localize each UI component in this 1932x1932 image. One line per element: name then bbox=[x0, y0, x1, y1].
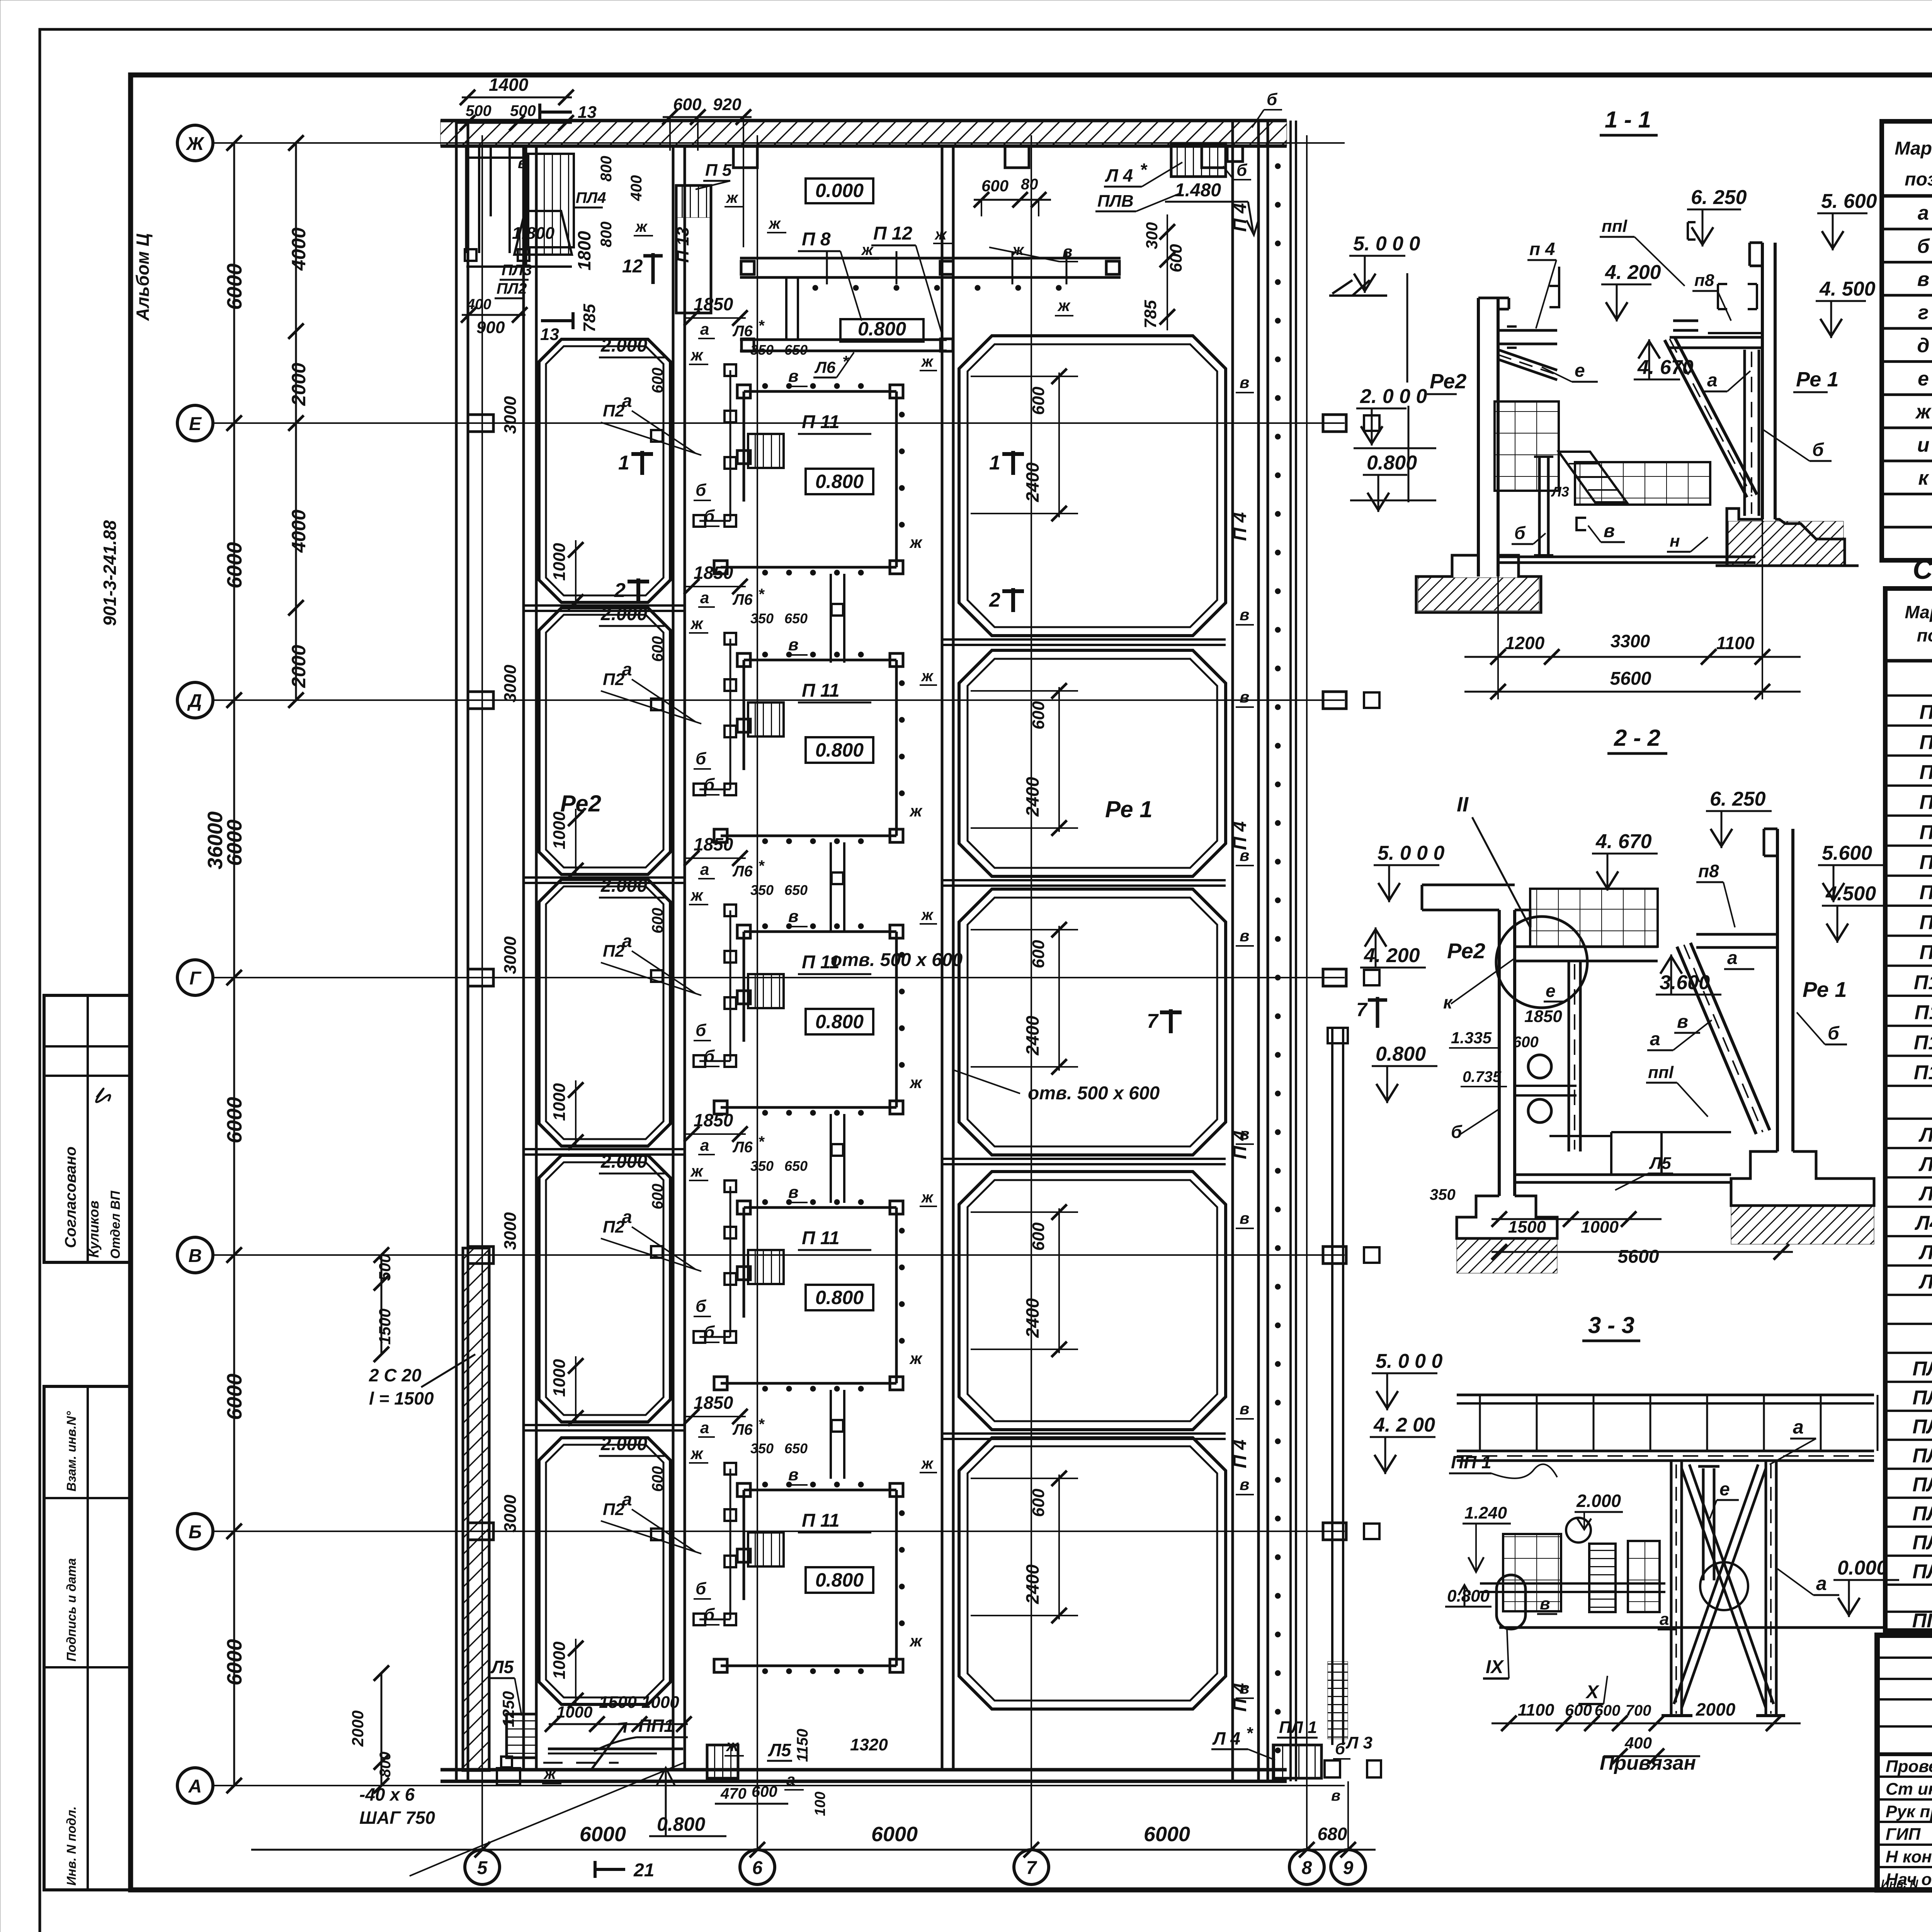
svg-text:б: б bbox=[696, 1021, 707, 1040]
svg-text:Спецификация лестниц, площад: Спецификация лестниц, площадок, огражден… bbox=[1913, 554, 1932, 585]
svg-text:е: е bbox=[1546, 981, 1556, 1001]
svg-text:б: б bbox=[696, 1297, 707, 1316]
svg-text:в: в bbox=[1240, 1209, 1249, 1227]
svg-text:П12: П12 bbox=[1914, 1031, 1932, 1054]
svg-text:1000: 1000 bbox=[550, 811, 569, 849]
svg-text:13: 13 bbox=[540, 325, 559, 344]
section 1-1 right diagonal bbox=[1665, 337, 1757, 497]
svg-text:Инв. N подл.: Инв. N подл. bbox=[64, 1806, 78, 1886]
plan left dim chain 6000s bbox=[226, 135, 242, 1793]
svg-text:350: 350 bbox=[750, 1158, 774, 1174]
svg-text:в: в bbox=[1240, 1679, 1249, 1697]
section 1-1 right post bbox=[1745, 350, 1759, 516]
svg-text:Л5: Л5 bbox=[1918, 1241, 1932, 1264]
svg-text:*: * bbox=[1246, 1724, 1253, 1743]
svg-text:ж: ж bbox=[726, 189, 739, 206]
svg-text:П9: П9 bbox=[1919, 941, 1932, 964]
left tank 2 bbox=[539, 608, 670, 874]
svg-text:-40 х 6: -40 х 6 bbox=[359, 1784, 415, 1804]
svg-text:б: б bbox=[696, 749, 707, 768]
right tank column walls bbox=[942, 146, 953, 1770]
svg-text:*: * bbox=[758, 317, 765, 334]
svg-text:785: 785 bbox=[1141, 300, 1160, 328]
svg-text:б: б bbox=[704, 775, 715, 794]
svg-text:*: * bbox=[758, 1133, 765, 1150]
svg-text:7: 7 bbox=[1147, 1010, 1159, 1032]
svg-text:ПЛ1: ПЛ1 bbox=[1912, 1387, 1932, 1409]
svg-text:ж: ж bbox=[909, 1632, 923, 1650]
section 3-3 post with e bbox=[1698, 1466, 1719, 1580]
svg-text:6000: 6000 bbox=[223, 1639, 246, 1685]
svg-text:ж: ж bbox=[921, 1455, 934, 1472]
svg-text:680: 680 bbox=[1318, 1824, 1347, 1844]
svg-text:500: 500 bbox=[466, 102, 492, 119]
svg-text:ж: ж bbox=[690, 1444, 704, 1463]
svg-text:П10: П10 bbox=[1914, 971, 1932, 994]
svg-text:3000: 3000 bbox=[501, 665, 520, 702]
svg-text:0.000: 0.000 bbox=[815, 180, 864, 201]
svg-text:б: б bbox=[696, 481, 707, 500]
left tank column walls bbox=[524, 146, 685, 1770]
svg-text:ПЛ5: ПЛ5 bbox=[1912, 1503, 1932, 1525]
svg-text:б: б bbox=[1236, 161, 1248, 180]
top-left stair block bbox=[465, 145, 572, 267]
svg-text:б: б bbox=[1828, 1023, 1840, 1044]
svg-text:2000: 2000 bbox=[1696, 1699, 1736, 1719]
left wall pilasters bbox=[468, 415, 493, 1540]
svg-text:900: 900 bbox=[476, 318, 505, 337]
P8 long platform bbox=[740, 251, 1121, 351]
svg-text:500: 500 bbox=[376, 1254, 394, 1281]
svg-text:800: 800 bbox=[598, 221, 615, 247]
svg-text:е: е bbox=[1918, 367, 1929, 390]
signature squiggle bbox=[96, 1088, 110, 1102]
section 3-3 top railing bbox=[1457, 1395, 1874, 1461]
section 2-2 posts bbox=[1569, 961, 1580, 1151]
building top wall (hatched band) bbox=[440, 121, 1287, 146]
svg-text:650: 650 bbox=[784, 1158, 808, 1174]
section 1-1 right wall Re1 bbox=[1750, 243, 1775, 519]
svg-text:ПП 1: ПП 1 bbox=[1451, 1452, 1492, 1472]
svg-text:II: II bbox=[1457, 793, 1469, 816]
svg-text:Л6: Л6 bbox=[732, 1139, 753, 1156]
svg-text:2 - 2: 2 - 2 bbox=[1614, 725, 1660, 751]
top-left ladder hatch bbox=[528, 154, 574, 247]
svg-text:Л4*: Л4* bbox=[1914, 1212, 1932, 1234]
svg-text:ГИП: ГИП bbox=[1886, 1825, 1921, 1844]
svg-text:в: в bbox=[788, 635, 799, 654]
svg-text:9: 9 bbox=[1343, 1858, 1354, 1878]
svg-text:21: 21 bbox=[633, 1860, 654, 1881]
svg-text:600: 600 bbox=[1565, 1701, 1592, 1719]
top right ladder bbox=[1171, 143, 1226, 177]
left tank 3 bbox=[539, 879, 670, 1146]
svg-text:100: 100 bbox=[812, 1792, 828, 1816]
svg-text:X: X bbox=[1585, 1682, 1600, 1702]
svg-text:в: в bbox=[1240, 1475, 1249, 1493]
svg-text:1150: 1150 bbox=[794, 1729, 811, 1762]
svg-text:3300: 3300 bbox=[1611, 631, 1650, 651]
svg-text:П11: П11 bbox=[1915, 1002, 1932, 1024]
svg-text:А: А bbox=[188, 1776, 202, 1797]
svg-text:Г: Г bbox=[189, 968, 202, 989]
right side axis anchors bbox=[1323, 415, 1379, 1540]
svg-text:в: в bbox=[788, 1465, 799, 1484]
svg-text:Л 4: Л 4 bbox=[1105, 165, 1133, 185]
svg-text:ПЛ3: ПЛ3 bbox=[502, 262, 532, 279]
svg-text:В: В bbox=[189, 1246, 202, 1266]
svg-text:*: * bbox=[1140, 160, 1148, 180]
section 1-1 bottom dims bbox=[1464, 657, 1801, 692]
svg-text:Е: Е bbox=[189, 414, 202, 434]
svg-text:Л1: Л1 bbox=[1918, 1124, 1932, 1146]
svg-text:а: а bbox=[1918, 202, 1929, 224]
svg-text:800: 800 bbox=[377, 1752, 394, 1777]
svg-text:470: 470 bbox=[720, 1785, 747, 1802]
svg-text:Ре2: Ре2 bbox=[1447, 939, 1485, 963]
svg-text:400: 400 bbox=[1624, 1734, 1652, 1752]
stamp box group: Согласовано bbox=[44, 995, 131, 1262]
svg-text:П6: П6 bbox=[1919, 851, 1932, 874]
svg-text:П 11: П 11 bbox=[802, 1228, 840, 1248]
svg-text:в: в bbox=[1240, 688, 1249, 706]
svg-text:ж: ж bbox=[768, 215, 781, 232]
svg-text:6000: 6000 bbox=[223, 1374, 246, 1420]
svg-text:600: 600 bbox=[649, 908, 666, 934]
svg-text:и: и bbox=[1917, 434, 1930, 456]
right tank 4 bbox=[959, 1172, 1226, 1430]
svg-text:в: в bbox=[788, 1183, 799, 1202]
svg-text:ПЛ4: ПЛ4 bbox=[576, 189, 606, 206]
svg-text:80: 80 bbox=[1021, 176, 1038, 193]
svg-text:ж: ж bbox=[909, 802, 923, 820]
svg-text:Л3: Л3 bbox=[1551, 484, 1569, 500]
right tank 1 bbox=[959, 336, 1226, 636]
svg-text:600: 600 bbox=[981, 177, 1009, 195]
svg-text:а: а bbox=[1793, 1416, 1804, 1438]
svg-text:П5: П5 bbox=[1919, 821, 1932, 844]
svg-text:п8: п8 bbox=[1694, 271, 1714, 290]
svg-text:1500: 1500 bbox=[376, 1309, 394, 1345]
svg-text:п 4: п 4 bbox=[1529, 239, 1555, 259]
svg-text:3 - 3: 3 - 3 bbox=[1588, 1312, 1634, 1338]
svg-text:П2: П2 bbox=[603, 401, 625, 420]
svg-text:ПЛ2: ПЛ2 bbox=[497, 280, 527, 297]
svg-text:1.240: 1.240 bbox=[1464, 1503, 1507, 1522]
svg-text:350: 350 bbox=[750, 1440, 774, 1456]
plan horizontal axis lines and circles bbox=[177, 125, 1345, 1803]
svg-text:0.800: 0.800 bbox=[815, 739, 864, 761]
section 1-1 left foundation bbox=[1416, 555, 1541, 612]
svg-text:600: 600 bbox=[1029, 940, 1048, 968]
svg-text:г: г bbox=[1918, 301, 1929, 324]
svg-text:Отдел ВП: Отдел ВП bbox=[108, 1190, 123, 1259]
svg-text:1000: 1000 bbox=[550, 543, 569, 581]
svg-text:1800: 1800 bbox=[574, 231, 594, 270]
svg-text:700: 700 bbox=[1626, 1702, 1651, 1719]
table Vedomost grid bbox=[1882, 121, 1932, 560]
svg-text:6000: 6000 bbox=[223, 542, 246, 588]
svg-text:ж: ж bbox=[635, 218, 648, 235]
svg-text:650: 650 bbox=[784, 882, 808, 898]
svg-text:ПЛ2: ПЛ2 bbox=[1912, 1416, 1932, 1438]
svg-text:13: 13 bbox=[578, 103, 597, 122]
bottom arrow bbox=[591, 1723, 626, 1770]
svg-text:600: 600 bbox=[1029, 701, 1048, 730]
svg-text:П2: П2 bbox=[603, 942, 625, 961]
svg-text:Марка: Марка bbox=[1905, 602, 1932, 622]
top wall pilasters bbox=[733, 146, 1226, 168]
svg-text:П 4: П 4 bbox=[1230, 821, 1250, 850]
svg-text:Л2: Л2 bbox=[1918, 1153, 1932, 1175]
svg-text:б: б bbox=[1514, 523, 1526, 543]
svg-text:ШАГ 750: ШАГ 750 bbox=[359, 1808, 435, 1828]
svg-text:п8: п8 bbox=[1698, 861, 1719, 881]
svg-text:в: в bbox=[1240, 1125, 1249, 1143]
svg-text:Б: Б bbox=[189, 1522, 202, 1543]
svg-text:7: 7 bbox=[1356, 999, 1368, 1020]
svg-text:в: в bbox=[1240, 373, 1249, 391]
svg-text:4. 200: 4. 200 bbox=[1364, 944, 1420, 967]
section mark 21 bottom bbox=[595, 1868, 625, 1871]
section 1-1 P8 channels bbox=[1673, 284, 1762, 333]
svg-text:а: а bbox=[700, 1136, 709, 1154]
svg-text:ПЛ6: ПЛ6 bbox=[1912, 1532, 1932, 1554]
13 mark lower bbox=[541, 319, 573, 322]
section 2-2 diagonal bbox=[1677, 943, 1770, 1134]
svg-text:1000: 1000 bbox=[1581, 1218, 1619, 1236]
svg-text:ПЛ7: ПЛ7 bbox=[1912, 1561, 1932, 1583]
chain near A axis bbox=[374, 1665, 389, 1793]
section 2-2 right wall bbox=[1764, 829, 1793, 1151]
svg-text:Л6: Л6 bbox=[732, 323, 753, 340]
svg-text:в: в bbox=[1240, 846, 1249, 864]
svg-text:отв. 500 х 600: отв. 500 х 600 bbox=[1028, 1083, 1160, 1104]
svg-text:3000: 3000 bbox=[501, 396, 520, 434]
svg-text:901-3-241.88: 901-3-241.88 bbox=[100, 520, 120, 626]
svg-text:650: 650 bbox=[784, 611, 808, 626]
svg-text:П 8: П 8 bbox=[802, 229, 831, 250]
svg-text:Л6: Л6 bbox=[1918, 1270, 1932, 1293]
svg-text:600: 600 bbox=[1029, 386, 1048, 415]
svg-text:П 5: П 5 bbox=[705, 161, 732, 180]
svg-text:1500: 1500 bbox=[599, 1693, 637, 1712]
svg-text:ж: ж bbox=[909, 1073, 923, 1092]
svg-text:0.800: 0.800 bbox=[1376, 1043, 1426, 1065]
svg-text:3000: 3000 bbox=[501, 1495, 520, 1532]
svg-text:0.800: 0.800 bbox=[858, 318, 906, 340]
svg-text:б: б bbox=[704, 1047, 715, 1066]
svg-text:4000: 4000 bbox=[288, 510, 310, 553]
svg-text:ппl: ппl bbox=[1648, 1063, 1674, 1082]
corridor platform modules bbox=[651, 364, 905, 575]
svg-text:2.000: 2.000 bbox=[600, 1434, 647, 1454]
svg-text:ПЛ 1: ПЛ 1 bbox=[1279, 1718, 1317, 1737]
section 2-2 right platform bbox=[1696, 934, 1777, 947]
svg-text:к: к bbox=[1918, 467, 1929, 490]
svg-text:в: в bbox=[788, 907, 799, 926]
section 2-2 stair/beams bbox=[1515, 947, 1658, 961]
svg-text:поз: поз bbox=[1917, 625, 1932, 645]
section 3-3 bottom dims bbox=[1492, 1723, 1801, 1756]
svg-text:П8: П8 bbox=[1919, 912, 1932, 934]
svg-text:б: б bbox=[704, 1323, 715, 1342]
svg-text:а: а bbox=[700, 860, 709, 878]
section 3-3 blobs IX X bbox=[1497, 1575, 1634, 1676]
svg-text:Л5: Л5 bbox=[1649, 1154, 1671, 1173]
section 1-1 slanted flight bbox=[1559, 452, 1627, 502]
svg-text:ПЛ8: ПЛ8 bbox=[1912, 1358, 1932, 1380]
svg-text:П1: П1 bbox=[1919, 701, 1932, 724]
building left wall bbox=[456, 121, 468, 1781]
svg-text:1000: 1000 bbox=[556, 1703, 592, 1721]
svg-text:0.800: 0.800 bbox=[815, 471, 864, 492]
svg-text:в: в bbox=[1604, 521, 1615, 541]
svg-text:Инв. N: Инв. N bbox=[1881, 1878, 1918, 1890]
svg-text:П 11: П 11 bbox=[802, 1510, 840, 1531]
svg-text:в: в bbox=[1677, 1012, 1688, 1032]
svg-text:в: в bbox=[1540, 1594, 1550, 1613]
svg-text:5600: 5600 bbox=[1618, 1247, 1659, 1267]
svg-text:1250: 1250 bbox=[499, 1691, 517, 1727]
svg-text:а: а bbox=[1727, 948, 1738, 968]
svg-text:ж: ж bbox=[1057, 296, 1071, 315]
svg-text:Л6: Л6 bbox=[732, 863, 753, 880]
section 2-2 left top slab bbox=[1422, 885, 1515, 910]
svg-text:920: 920 bbox=[713, 95, 742, 114]
svg-text:ПЛ3: ПЛ3 bbox=[1912, 1445, 1932, 1467]
svg-text:Л6: Л6 bbox=[732, 591, 753, 608]
svg-text:а: а bbox=[1707, 370, 1718, 391]
svg-text:а: а bbox=[700, 1418, 709, 1437]
section 3-3 0.800 line bbox=[1480, 1583, 1665, 1592]
section 2-2 detail circle II bbox=[1496, 917, 1587, 1008]
svg-text:1.800: 1.800 bbox=[512, 224, 555, 243]
section 2-2 left wall bbox=[1499, 910, 1530, 1196]
svg-text:д: д bbox=[1917, 335, 1929, 357]
svg-text:а: а bbox=[1660, 1610, 1669, 1629]
svg-text:600: 600 bbox=[1029, 1488, 1048, 1517]
svg-text:в: в bbox=[1331, 1787, 1340, 1804]
svg-text:б: б bbox=[696, 1579, 707, 1598]
svg-text:2.000: 2.000 bbox=[1576, 1491, 1621, 1511]
svg-text:IX: IX bbox=[1486, 1657, 1504, 1677]
svg-text:Рук пр.: Рук пр. bbox=[1886, 1802, 1932, 1821]
section 1-1 small channel glyph mid bbox=[1688, 222, 1696, 240]
bottom axis circles bbox=[251, 135, 1376, 1884]
P13 column bbox=[676, 185, 711, 313]
svg-text:П7: П7 bbox=[1919, 881, 1932, 904]
svg-text:1000: 1000 bbox=[550, 1359, 569, 1397]
svg-text:0.735: 0.735 bbox=[1463, 1068, 1502, 1085]
right tank 2 bbox=[959, 650, 1226, 876]
svg-text:2400: 2400 bbox=[1022, 1298, 1043, 1338]
svg-text:1000: 1000 bbox=[550, 1641, 569, 1679]
section 2-2 floor members bbox=[1515, 1132, 1731, 1182]
svg-text:ж: ж bbox=[690, 346, 704, 364]
left tank 4 bbox=[539, 1155, 670, 1422]
svg-text:Н контр.: Н контр. bbox=[1886, 1847, 1932, 1866]
svg-text:600: 600 bbox=[752, 1783, 777, 1800]
svg-text:1000: 1000 bbox=[641, 1693, 679, 1712]
section 1-1 sloped brace e bbox=[1498, 350, 1557, 380]
svg-text:36000: 36000 bbox=[204, 811, 227, 869]
svg-text:5.600: 5.600 bbox=[1822, 842, 1872, 864]
svg-text:а: а bbox=[1816, 1573, 1827, 1594]
svg-text:П3: П3 bbox=[1919, 761, 1932, 784]
right tank 5 bbox=[959, 1438, 1226, 1709]
svg-text:1400: 1400 bbox=[489, 75, 529, 95]
svg-text:2.000: 2.000 bbox=[600, 876, 647, 896]
title block frame bbox=[1877, 1635, 1932, 1890]
section 1-1 floor lines bbox=[1498, 557, 1755, 563]
svg-text:ж: ж bbox=[909, 533, 923, 551]
svg-text:Ре2: Ре2 bbox=[1430, 370, 1466, 393]
svg-text:е: е bbox=[1575, 361, 1585, 381]
svg-text:4.500: 4.500 bbox=[1825, 883, 1876, 905]
svg-text:5600: 5600 bbox=[1610, 668, 1651, 689]
svg-text:2.000: 2.000 bbox=[600, 335, 647, 356]
svg-text:600: 600 bbox=[1513, 1034, 1539, 1051]
svg-text:785: 785 bbox=[580, 304, 599, 332]
chain near B axis bbox=[374, 1247, 389, 1362]
svg-text:0.800: 0.800 bbox=[815, 1011, 864, 1032]
left tank 5 bbox=[539, 1438, 670, 1704]
svg-text:2: 2 bbox=[614, 579, 626, 602]
svg-text:600: 600 bbox=[649, 1184, 666, 1209]
svg-text:8: 8 bbox=[1302, 1858, 1312, 1878]
svg-text:1: 1 bbox=[989, 452, 1000, 474]
svg-text:6. 250: 6. 250 bbox=[1691, 186, 1747, 209]
section 1-1 P4 platform bbox=[1498, 267, 1559, 348]
svg-text:0.800: 0.800 bbox=[815, 1287, 864, 1308]
svg-text:1.480: 1.480 bbox=[1175, 180, 1221, 201]
svg-text:1320: 1320 bbox=[850, 1735, 888, 1754]
svg-text:ж: ж bbox=[921, 353, 934, 370]
svg-text:ж: ж bbox=[921, 668, 934, 685]
svg-text:1000: 1000 bbox=[550, 1083, 569, 1121]
svg-text:Провер: Провер bbox=[1886, 1757, 1932, 1776]
svg-text:0.800: 0.800 bbox=[1367, 452, 1417, 474]
svg-text:а: а bbox=[700, 320, 709, 338]
svg-text:2400: 2400 bbox=[1022, 1564, 1043, 1604]
svg-text:П13: П13 bbox=[1914, 1061, 1932, 1084]
svg-text:*: * bbox=[758, 586, 765, 603]
svg-text:в: в bbox=[1917, 268, 1929, 291]
section 2-2 right foundation bbox=[1731, 1151, 1874, 1206]
svg-text:1100: 1100 bbox=[1518, 1701, 1554, 1719]
svg-text:ПЛ4: ПЛ4 bbox=[1912, 1474, 1932, 1496]
svg-text:6: 6 bbox=[752, 1858, 763, 1878]
svg-text:н: н bbox=[1670, 532, 1680, 551]
svg-text:П 12: П 12 bbox=[873, 223, 913, 244]
svg-text:*: * bbox=[758, 1416, 765, 1433]
svg-text:в: в bbox=[788, 367, 799, 386]
svg-text:2400: 2400 bbox=[1022, 1015, 1043, 1056]
svg-text:ж: ж bbox=[690, 1162, 704, 1180]
spec table grid bbox=[1885, 588, 1932, 1631]
svg-text:12: 12 bbox=[622, 256, 643, 277]
svg-text:600: 600 bbox=[649, 1466, 666, 1492]
svg-text:Ре 1: Ре 1 bbox=[1105, 796, 1153, 822]
svg-text:Л5: Л5 bbox=[768, 1740, 792, 1760]
svg-text:7: 7 bbox=[1026, 1858, 1037, 1878]
svg-text:в: в bbox=[518, 155, 527, 172]
svg-text:Ж: Ж bbox=[185, 134, 205, 154]
svg-text:е: е bbox=[1719, 1479, 1730, 1500]
svg-text:2000: 2000 bbox=[288, 363, 310, 406]
0.000 box bbox=[806, 179, 873, 203]
